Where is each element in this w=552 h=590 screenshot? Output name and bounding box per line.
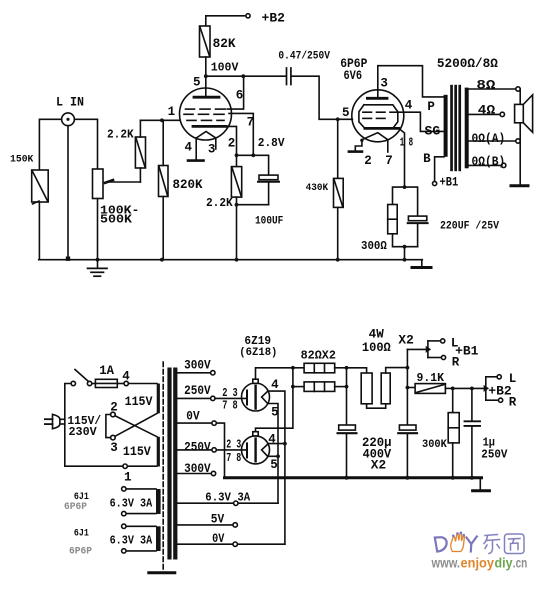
node V1 cathode junction bbox=[235, 153, 239, 157]
capacitor 220UF 25V bbox=[408, 216, 428, 247]
wire 150K bottom to bus bbox=[38, 202, 40, 260]
svg-text:500K: 500K bbox=[100, 213, 132, 226]
svg-text:P: P bbox=[427, 100, 435, 114]
node terminal 4 primary bbox=[124, 381, 128, 385]
node bus 430K bbox=[336, 258, 340, 262]
node +B1 terminal circle bbox=[433, 181, 437, 185]
node bus 820K bbox=[160, 258, 164, 262]
ground chassis psu bbox=[473, 478, 490, 491]
transformer PT core bars bbox=[167, 368, 177, 560]
wire 8 ohm tap bbox=[468, 88, 516, 90]
svg-text:820K: 820K bbox=[173, 178, 203, 192]
wire 0V tap heater bbox=[177, 543, 233, 545]
node terminal 1 primary bbox=[123, 464, 127, 468]
wire grid V1 bbox=[140, 119, 180, 121]
resistor R1 82K bbox=[200, 26, 211, 57]
node V1 g3 junction bbox=[251, 153, 255, 157]
svg-text:300K: 300K bbox=[422, 439, 447, 451]
tube V1 cathode bbox=[193, 125, 226, 128]
pot wiper arrow bbox=[105, 180, 140, 183]
switch bbox=[71, 370, 92, 386]
wire cathode node bbox=[237, 155, 269, 175]
svg-text:8Ω: 8Ω bbox=[476, 79, 496, 93]
wire filter node1 down bbox=[346, 368, 348, 425]
pin 2 lead to chassis bbox=[349, 139, 364, 152]
resistor 150K bbox=[32, 170, 49, 204]
node 250V bottom terminal bbox=[212, 448, 216, 452]
speaker bbox=[515, 95, 533, 133]
wire V4 top cap to filter bbox=[256, 368, 293, 432]
node 300V top terminal bbox=[211, 371, 215, 375]
ground symbol main bbox=[88, 260, 108, 277]
svg-text:(6Z18): (6Z18) bbox=[239, 347, 277, 359]
svg-text:2.2K: 2.2K bbox=[107, 129, 134, 142]
wire filter node2 vertical bbox=[406, 349, 408, 425]
wire 2.2K top bbox=[139, 120, 141, 137]
svg-text:5200Ω/8Ω: 5200Ω/8Ω bbox=[437, 57, 499, 71]
node grid V2 junction bbox=[336, 117, 340, 121]
resistor 2.2K cathode bbox=[231, 155, 241, 197]
transformer PT primary winding lower 115V bbox=[157, 437, 160, 467]
wire V3 pin5 heater line A bbox=[269, 404, 278, 504]
node 0 ohm A terminal bbox=[516, 139, 520, 143]
capacitor 0.47/250V coupling bbox=[287, 68, 291, 85]
node cathode V2 junction bbox=[403, 185, 407, 189]
rectifier tube V3 6Z19 bbox=[242, 379, 270, 411]
svg-text:430K: 430K bbox=[306, 182, 329, 194]
svg-text:2: 2 bbox=[364, 154, 372, 168]
resistor 9.1K bbox=[407, 384, 452, 394]
wire 0 ohm B tap bbox=[468, 164, 501, 166]
svg-text:5: 5 bbox=[193, 75, 201, 89]
wire V3 top cap to filter bbox=[256, 368, 293, 379]
node plate V1 junction bbox=[204, 74, 208, 78]
node 300V bottom terminal bbox=[211, 471, 215, 475]
pins 1 8 cathode lead down bbox=[399, 128, 405, 187]
svg-text:1: 1 bbox=[168, 105, 176, 119]
node filter1 row2 bbox=[345, 385, 349, 389]
node +B2 terminal bbox=[206, 14, 250, 26]
svg-text:3: 3 bbox=[208, 143, 216, 157]
resistor 100ohm left bbox=[347, 368, 386, 408]
node 9.1K right junction bbox=[451, 387, 455, 391]
svg-text:100Ω: 100Ω bbox=[362, 341, 391, 355]
svg-text:4: 4 bbox=[271, 378, 279, 392]
tube V1 plate bbox=[194, 96, 219, 99]
node 1u junction bbox=[470, 387, 474, 391]
capacitor 1u 250V bbox=[465, 388, 481, 477]
svg-text:300Ω: 300Ω bbox=[361, 240, 387, 253]
svg-text:220UF /25V: 220UF /25V bbox=[440, 220, 499, 232]
node line A junction bbox=[276, 454, 280, 458]
svg-text:4Ω: 4Ω bbox=[478, 103, 496, 117]
wire jack sleeve to ground bus bbox=[67, 126, 69, 259]
node 6.3V terminal bbox=[234, 501, 238, 505]
wire coupling cap to V2 grid bbox=[292, 76, 353, 119]
wire cross upper to 3 bbox=[115, 413, 158, 436]
wire mains left rail bbox=[65, 384, 71, 467]
wire 820K top bbox=[162, 120, 164, 165]
node filter2 row2 bbox=[406, 386, 410, 390]
pin 2 cathode lead bbox=[226, 126, 237, 155]
wire B to +B1 terminal bbox=[435, 157, 444, 182]
svg-text:0Ω(B): 0Ω(B) bbox=[472, 155, 506, 169]
svg-text:7 8: 7 8 bbox=[226, 451, 241, 465]
svg-text:4W: 4W bbox=[369, 327, 385, 341]
svg-text:www.: www. bbox=[431, 555, 460, 570]
svg-text:6J1: 6J1 bbox=[74, 528, 89, 540]
node screen tie junction bbox=[241, 74, 245, 78]
pin 6 screen lead bbox=[228, 76, 244, 109]
wire pot bottom to bus bbox=[97, 199, 99, 260]
tube V1 grid g2 dashes bbox=[186, 108, 226, 110]
svg-text:R: R bbox=[452, 356, 460, 370]
tube V2 cathode bbox=[365, 127, 399, 130]
tube V1 grid g3 dashes bbox=[184, 113, 224, 115]
tube V2 beam plates bbox=[359, 105, 398, 129]
wire 0V center tap to bus bbox=[177, 423, 224, 478]
pin 4 screen lead to OPT SG bbox=[398, 112, 445, 131]
node bus cap2 bbox=[405, 476, 409, 480]
node bus ground stem bbox=[96, 258, 100, 262]
node grid junction with 820K bbox=[160, 118, 164, 122]
svg-text:0V: 0V bbox=[186, 410, 200, 424]
svg-text:230V: 230V bbox=[69, 425, 98, 439]
wire 4 ohm tap bbox=[468, 113, 500, 115]
node 0V heater terminal bbox=[233, 542, 237, 546]
wire V4 pin5 to line A bbox=[269, 455, 278, 457]
rectifier tube V4 6Z19 bbox=[242, 432, 270, 464]
svg-text:.cn: .cn bbox=[513, 555, 528, 570]
logo letter Y bbox=[467, 537, 477, 552]
svg-text:4: 4 bbox=[185, 140, 193, 154]
fuse 1A bbox=[92, 379, 124, 387]
svg-text:5: 5 bbox=[342, 106, 350, 120]
wire 820K bottom to bus bbox=[162, 197, 164, 260]
logo hand icon bbox=[451, 532, 465, 551]
transformer PT primary winding upper 115V bbox=[157, 384, 160, 414]
svg-text:X2: X2 bbox=[398, 334, 413, 348]
potentiometer 100K-500K bbox=[93, 169, 104, 199]
svg-text:6: 6 bbox=[236, 89, 244, 103]
svg-text:300V: 300V bbox=[184, 358, 211, 372]
svg-text:2.2K: 2.2K bbox=[206, 197, 233, 210]
svg-text:L IN: L IN bbox=[56, 96, 84, 110]
node filter1 top bbox=[345, 366, 349, 370]
svg-text:250V: 250V bbox=[184, 384, 211, 398]
logo hanzi le bbox=[484, 535, 500, 554]
wire primary bottom to terminal 1 bbox=[127, 465, 156, 467]
svg-text:6.3V 3A: 6.3V 3A bbox=[110, 533, 153, 547]
resistor 82ohm lower bbox=[293, 382, 347, 392]
tube V1 heater bbox=[196, 132, 216, 139]
svg-text:250V: 250V bbox=[184, 441, 211, 455]
node bus cap1 bbox=[345, 476, 349, 480]
node cathode resistor bottom junction bbox=[235, 203, 239, 207]
svg-text:6.3V 3A: 6.3V 3A bbox=[205, 490, 251, 504]
node 300ohm bottom junction bbox=[403, 245, 407, 249]
node 250V top terminal bbox=[211, 396, 215, 400]
node B2 arrow bbox=[484, 385, 490, 392]
svg-text:7 8: 7 8 bbox=[222, 399, 238, 413]
tube V2 grid dashes row1 bbox=[363, 111, 397, 113]
logo hanzi yuan bbox=[505, 534, 525, 554]
ground chassis transformer bbox=[149, 571, 175, 574]
pin 7 g3 lead bbox=[229, 113, 253, 155]
capacitor 220u no1 bbox=[338, 425, 357, 478]
tube V2 grid dashes row2 bbox=[363, 117, 385, 119]
node B2 R terminal bbox=[499, 398, 503, 402]
node sleeve ground square junction bbox=[66, 257, 70, 261]
node selector terminal 3 bbox=[111, 435, 116, 440]
svg-text:diy: diy bbox=[495, 555, 513, 570]
tube V2 plate bbox=[367, 97, 387, 100]
svg-text:100V: 100V bbox=[211, 60, 239, 74]
svg-text:5V: 5V bbox=[211, 513, 225, 527]
svg-text:+B1: +B1 bbox=[440, 175, 459, 189]
wire 0 ohm A tap bbox=[468, 140, 516, 142]
svg-text:0V: 0V bbox=[212, 532, 225, 546]
wire V4 pin4 to line B bbox=[269, 443, 285, 445]
wire 250V to tube V4 bbox=[216, 449, 247, 451]
node bus cathode R bbox=[235, 258, 239, 262]
resistor 300K bbox=[448, 388, 459, 477]
resistor 820K bbox=[159, 166, 169, 197]
svg-text:1A: 1A bbox=[99, 364, 114, 378]
svg-text:7: 7 bbox=[385, 154, 393, 168]
node plate junction row2 bbox=[291, 385, 295, 389]
svg-text:SG: SG bbox=[425, 125, 441, 139]
tube V1 6J1 envelope bbox=[180, 88, 232, 140]
capacitor 100UF bbox=[237, 175, 280, 205]
pin 7 lead V2 bbox=[387, 140, 389, 152]
wire 2.2K cathode bottom to bus bbox=[236, 197, 238, 260]
svg-text:1µ: 1µ bbox=[483, 436, 495, 449]
wire 6.3V tap line bbox=[177, 502, 233, 504]
wire jack right branch to pot bbox=[74, 119, 97, 169]
svg-text:1: 1 bbox=[124, 471, 132, 485]
resistor 430K bbox=[334, 119, 344, 259]
wire 250V tap top to rectifier V3 bbox=[177, 397, 210, 399]
pin 3 heater lead bbox=[215, 138, 217, 149]
node B1 L terminal bbox=[441, 339, 445, 343]
ground bus psu thick bbox=[225, 476, 482, 479]
transformer PT core dashed bbox=[162, 362, 164, 571]
capacitor 220u no2 bbox=[398, 425, 417, 478]
node bus 1u bbox=[470, 476, 474, 480]
svg-text:82ΩX2: 82ΩX2 bbox=[301, 348, 336, 362]
tube V2 6P6P envelope bbox=[352, 90, 404, 142]
svg-text:X2: X2 bbox=[371, 459, 386, 473]
svg-text:115V: 115V bbox=[125, 395, 153, 409]
wire terminal1 to rail bbox=[65, 465, 123, 467]
wire to B2 bracket bbox=[453, 387, 484, 389]
ground chassis speaker bbox=[511, 184, 528, 187]
resistor 82ohm upper bbox=[293, 363, 347, 373]
svg-text:B: B bbox=[423, 152, 431, 166]
logo letter D bbox=[435, 537, 447, 551]
transformer OPT secondary winding bbox=[465, 88, 469, 169]
node filter2 top bbox=[406, 366, 410, 370]
wire jack left branch bbox=[39, 119, 61, 170]
wire selector bracket bbox=[106, 415, 111, 438]
svg-text:2 3: 2 3 bbox=[226, 437, 241, 451]
wire speaker bus bbox=[519, 89, 521, 184]
svg-text:100UF: 100UF bbox=[255, 215, 283, 227]
wire 300V tap top bbox=[177, 372, 210, 374]
ground bus top circuit bbox=[39, 259, 423, 261]
wire 250V tap bottom to rectifier V4 bbox=[177, 449, 212, 451]
svg-text:1 8: 1 8 bbox=[400, 136, 414, 149]
svg-text:6P6P: 6P6P bbox=[64, 501, 87, 513]
node B1 R terminal bbox=[441, 355, 445, 359]
svg-text:115V: 115V bbox=[123, 445, 151, 459]
svg-text:enjoy: enjoy bbox=[461, 555, 495, 570]
svg-text:4: 4 bbox=[122, 370, 130, 384]
svg-text:5: 5 bbox=[270, 458, 278, 472]
svg-text:R: R bbox=[509, 396, 517, 410]
wire cathode network top bbox=[393, 187, 418, 216]
wire 0V to line B bbox=[237, 543, 285, 545]
wire plate node to coupling cap bbox=[206, 75, 286, 77]
wire terminal4 to winding bbox=[128, 383, 157, 385]
svg-text:+B2: +B2 bbox=[262, 11, 286, 26]
node 8 ohm terminal bbox=[516, 87, 520, 91]
mains plug bbox=[45, 414, 65, 428]
svg-text:82K: 82K bbox=[213, 37, 236, 51]
svg-text:7: 7 bbox=[247, 116, 255, 130]
svg-text:6V6: 6V6 bbox=[344, 69, 363, 83]
node 4 ohm terminal bbox=[500, 112, 504, 116]
transformer OPT primary winding bbox=[444, 95, 448, 157]
tube V2 heater bbox=[362, 133, 388, 140]
tube V1 grid g1 dashes bbox=[187, 119, 224, 121]
svg-text:4: 4 bbox=[405, 99, 413, 113]
wire 2.2K bottom to wiper bbox=[139, 168, 141, 182]
svg-text:6Z19: 6Z19 bbox=[244, 335, 271, 348]
node B1 arrow bbox=[426, 346, 432, 353]
resistor 100ohm right bbox=[381, 368, 407, 404]
wire 250V to tube V3 bbox=[215, 397, 247, 399]
input jack L IN bbox=[62, 113, 75, 126]
pin 4 heater lead to chassis bbox=[188, 138, 204, 161]
svg-text:3: 3 bbox=[110, 441, 118, 455]
ground chassis right end bbox=[412, 260, 431, 268]
transformer PT heater winding 2 bbox=[122, 524, 161, 553]
transformer OPT core bbox=[450, 85, 461, 171]
node 0 ohm B terminal bbox=[502, 163, 506, 167]
wire node2 to B1 bracket bbox=[407, 348, 426, 350]
wire 300V tap bottom bbox=[177, 473, 211, 475]
node B2 L terminal bbox=[497, 375, 501, 379]
wire cross lower to 2 bbox=[115, 416, 158, 437]
svg-text:3: 3 bbox=[380, 76, 388, 90]
node selector terminal 2 bbox=[111, 412, 116, 417]
node line B junction bbox=[283, 442, 287, 446]
wire heater line A to 6.3V tap bbox=[238, 502, 278, 504]
wire 5V tap bbox=[177, 524, 233, 526]
svg-text:0Ω(A): 0Ω(A) bbox=[472, 132, 506, 146]
wire cathode network to bus bbox=[404, 247, 406, 260]
svg-text:250V: 250V bbox=[481, 449, 507, 462]
transformer PT heater winding 1 bbox=[122, 487, 161, 516]
wire B2 bracket bbox=[486, 377, 499, 400]
svg-text:150K: 150K bbox=[10, 153, 34, 165]
svg-text:6P6P: 6P6P bbox=[69, 546, 92, 558]
node 5V terminal bbox=[233, 523, 237, 527]
node 0V terminal bbox=[212, 421, 216, 425]
wire B1 bracket bbox=[428, 341, 441, 358]
svg-text:2: 2 bbox=[110, 400, 118, 414]
wire V3 pin4 heater line B bbox=[269, 391, 285, 544]
node plate junction top bbox=[291, 366, 295, 370]
svg-text:300V: 300V bbox=[184, 462, 211, 476]
node bus 300ohm bbox=[403, 258, 407, 262]
resistor 300 ohm bbox=[388, 205, 418, 247]
node bus 300K bbox=[451, 476, 455, 480]
wire 82K to plate node bbox=[205, 57, 207, 97]
resistor 2.2K grid bbox=[135, 137, 145, 168]
svg-text:2.8V: 2.8V bbox=[258, 137, 285, 150]
svg-text:0.47/250V: 0.47/250V bbox=[278, 50, 330, 62]
svg-text:2: 2 bbox=[228, 136, 236, 150]
svg-text:6.3V 3A: 6.3V 3A bbox=[110, 496, 153, 510]
tube V2 plate lead to OPT P bbox=[378, 66, 445, 99]
